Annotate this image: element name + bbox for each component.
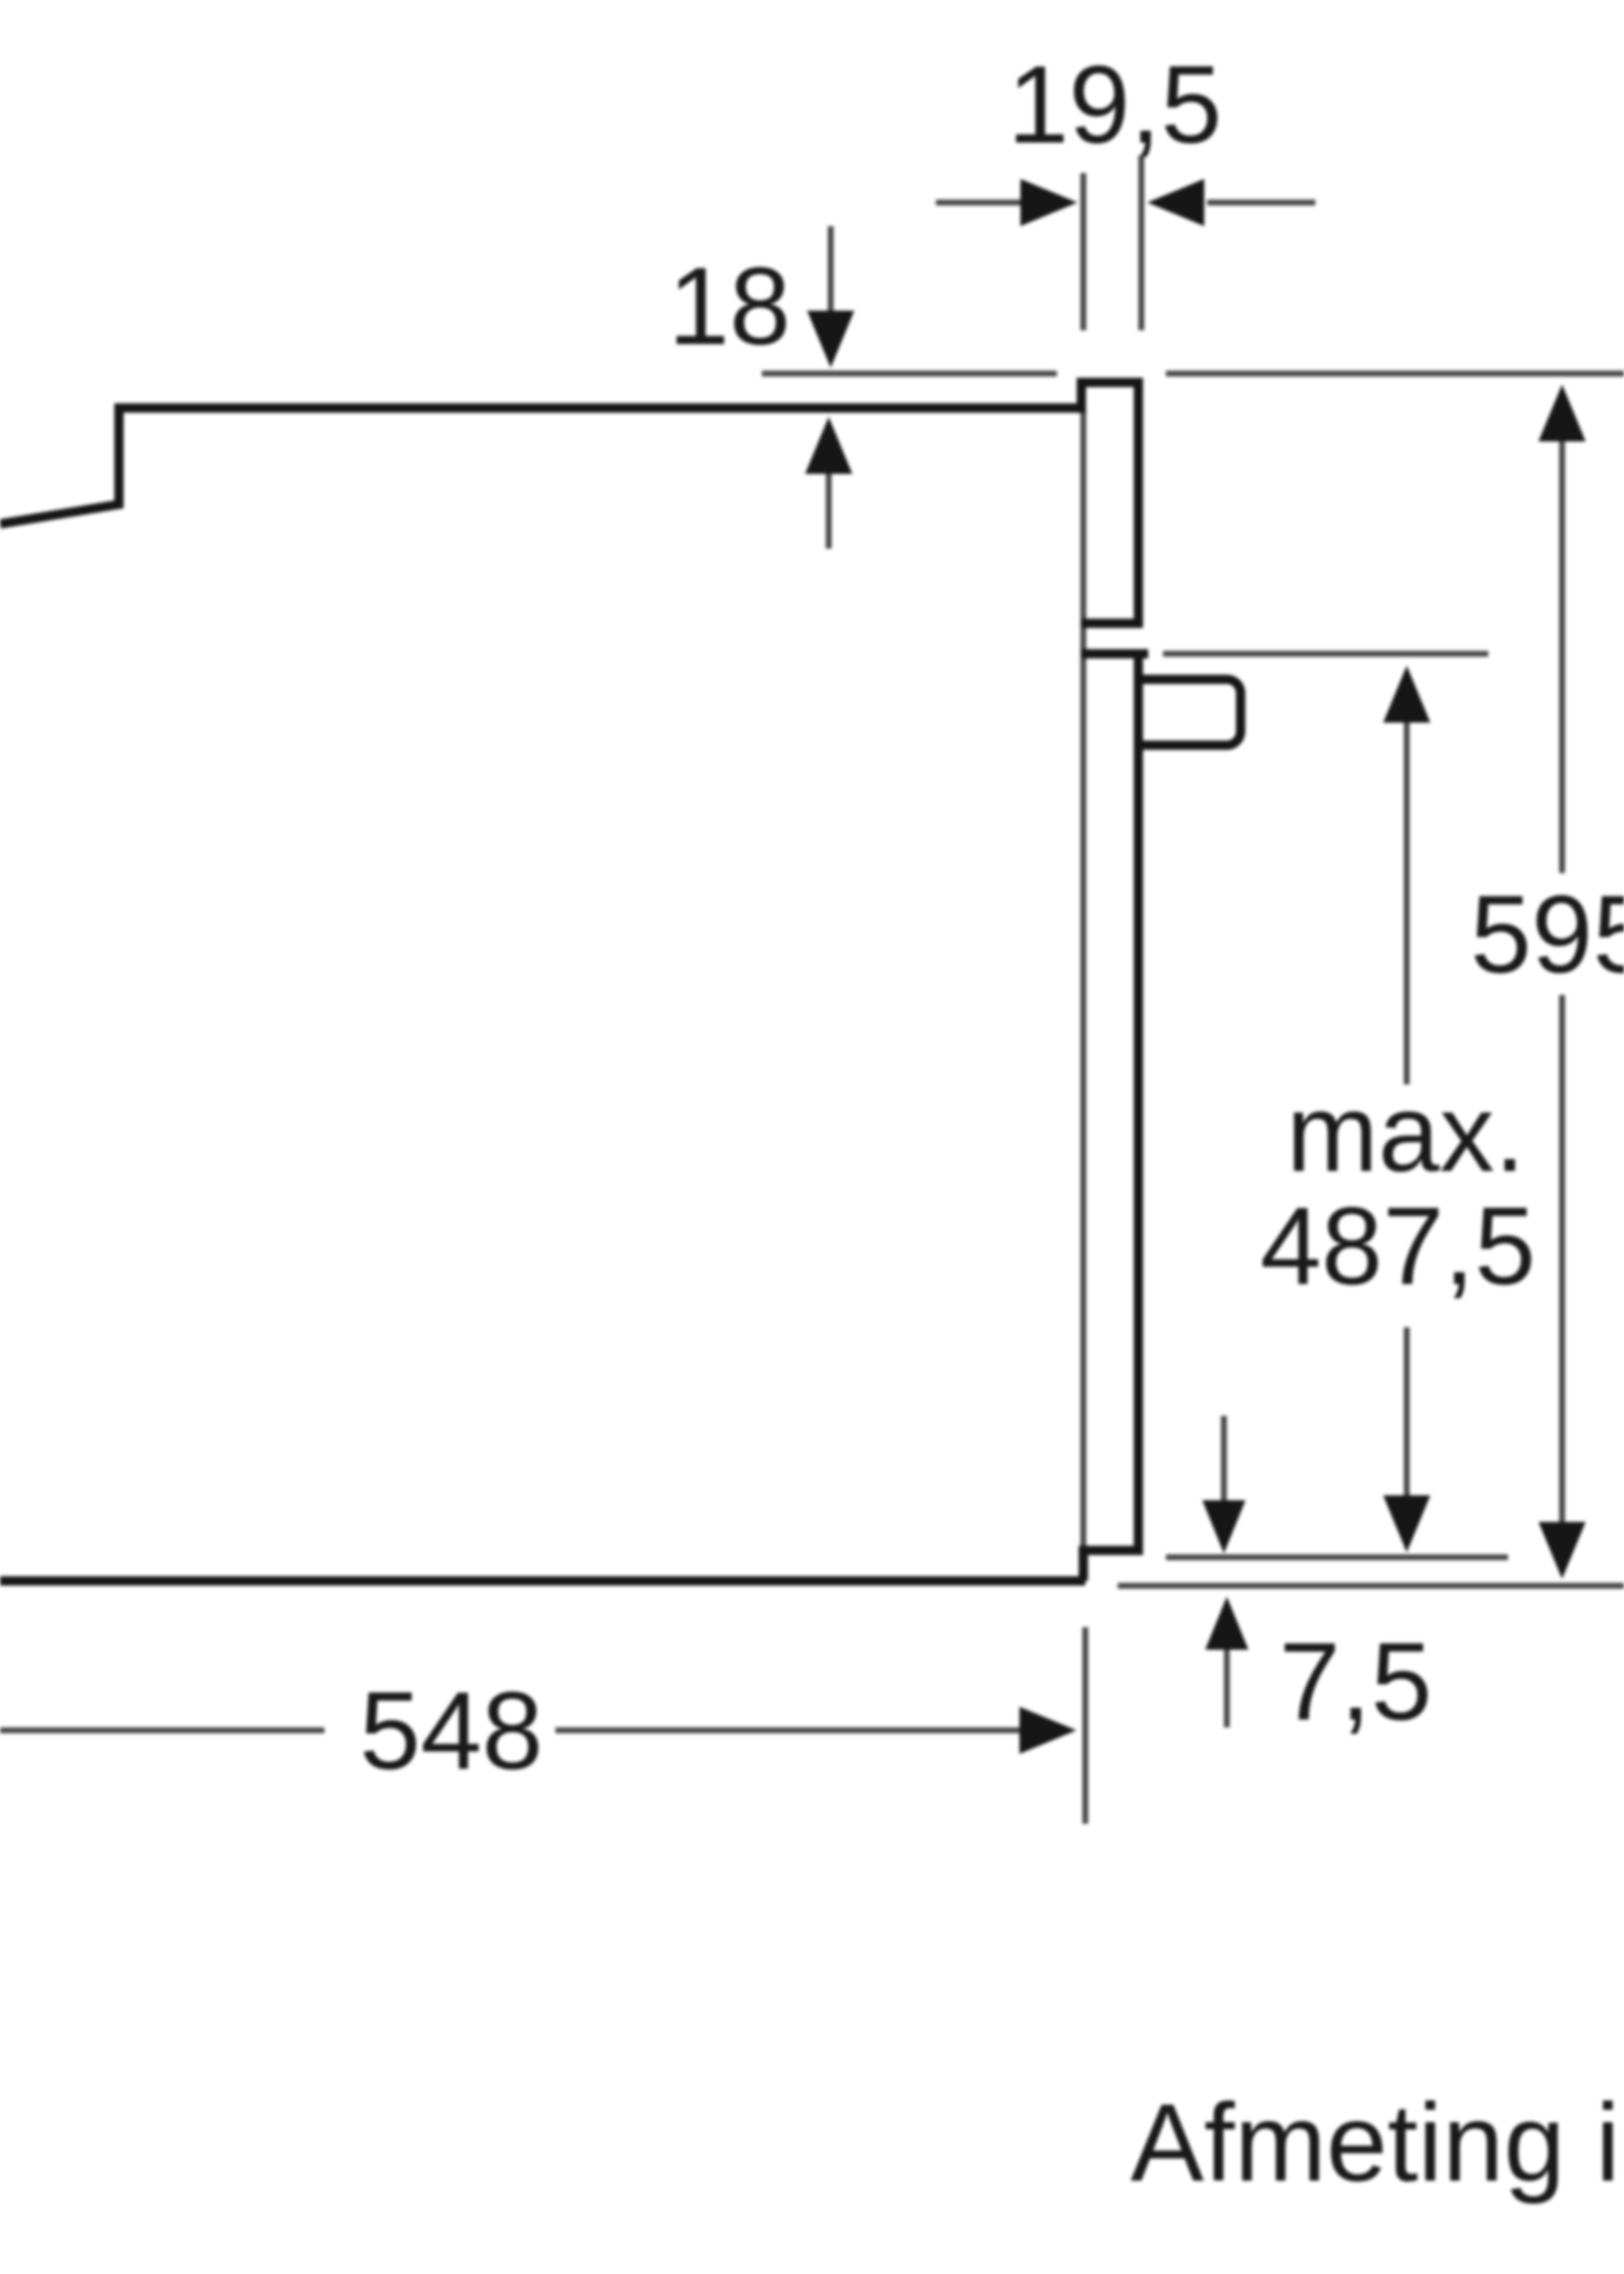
- svg-text:max.: max.: [1287, 1072, 1526, 1195]
- svg-text:18: 18: [668, 245, 791, 368]
- svg-text:487,5: 487,5: [1260, 1185, 1536, 1308]
- svg-text:19,5: 19,5: [1008, 43, 1222, 166]
- svg-text:548: 548: [360, 1669, 544, 1792]
- svg-text:Afmeting in mm: Afmeting in mm: [1131, 2081, 1624, 2204]
- svg-text:7,5: 7,5: [1279, 1620, 1432, 1743]
- svg-text:595: 595: [1471, 873, 1624, 996]
